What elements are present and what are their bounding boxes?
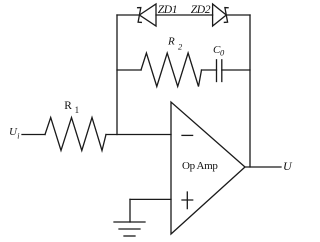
wire left feedback trunk [116, 15, 118, 135]
svg-text:2: 2 [178, 42, 183, 52]
wire top right [226, 14, 250, 16]
svg-text:1: 1 [75, 105, 80, 115]
minus sign inverting input [182, 134, 193, 136]
resistor R2 [141, 53, 202, 87]
svg-text:ZD1: ZD1 [158, 3, 177, 16]
label R1 [64, 100, 79, 115]
svg-text:Op Amp: Op Amp [182, 160, 218, 172]
svg-text:U: U [283, 159, 293, 173]
plus sign non-inverting input [182, 192, 193, 209]
wire ground drop [129, 199, 131, 222]
capacitor C0 [217, 60, 222, 82]
ground [114, 222, 145, 236]
wire R1 to op-amp inverting input [106, 134, 171, 136]
label R2 [167, 36, 183, 52]
zener ZD1 [138, 4, 156, 26]
svg-text:0: 0 [220, 48, 225, 58]
wire C0 to right trunk [222, 69, 250, 71]
wire non-inverting input [130, 198, 171, 200]
wire middle row left [117, 69, 141, 71]
resistor R1 [45, 118, 106, 151]
svg-text:ZD2: ZD2 [191, 3, 211, 16]
label C0 [213, 44, 225, 58]
wire R2 to C0 [202, 69, 217, 71]
wire top left [117, 14, 139, 16]
wire output [245, 166, 281, 168]
wire right feedback trunk [249, 15, 251, 167]
op-amp U1 [171, 102, 245, 234]
svg-text:R: R [167, 36, 175, 48]
wire input stub [22, 134, 45, 136]
wire between zeners [156, 14, 213, 16]
svg-text:i: i [17, 132, 19, 141]
label Ui [9, 126, 20, 141]
svg-text:R: R [64, 100, 72, 112]
zener ZD2 [213, 4, 229, 26]
